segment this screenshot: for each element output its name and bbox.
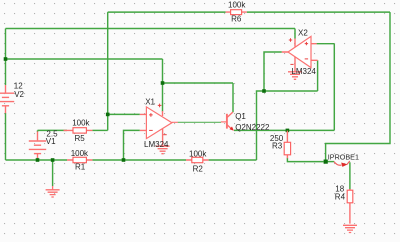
svg-text:IPROBE1: IPROBE1	[328, 152, 359, 161]
svg-text:V1: V1	[46, 137, 56, 146]
svg-text:100k: 100k	[72, 118, 90, 127]
svg-text:R4: R4	[335, 193, 346, 202]
svg-text:100k: 100k	[71, 149, 89, 158]
svg-text:R2: R2	[193, 164, 204, 173]
svg-text:100k: 100k	[228, 0, 246, 9]
svg-text:Q1: Q1	[235, 112, 246, 121]
svg-text:100k: 100k	[189, 149, 207, 158]
svg-text:R6: R6	[231, 15, 242, 24]
svg-text:V2: V2	[14, 90, 24, 99]
svg-text:R1: R1	[75, 162, 86, 171]
svg-text:LM324: LM324	[144, 140, 169, 149]
svg-text:R5: R5	[75, 134, 86, 143]
svg-text:R3: R3	[272, 142, 283, 151]
svg-text:X2: X2	[298, 28, 308, 37]
svg-text:LM324: LM324	[291, 67, 316, 76]
svg-text:X1: X1	[145, 97, 155, 106]
svg-text:Q2N2222: Q2N2222	[235, 123, 270, 132]
